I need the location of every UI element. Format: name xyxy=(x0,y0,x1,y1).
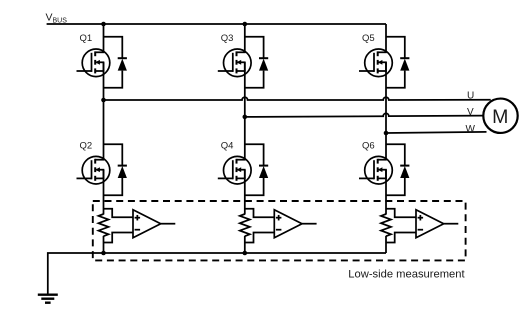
wire: phase U from leg1 to motor (hops over leg2 and leg3) xyxy=(104,97,491,100)
wire: leg2 drain Q3 xyxy=(244,24,246,52)
svg-text:V: V xyxy=(467,107,474,118)
op-amp U2 xyxy=(274,210,316,238)
svg-text:M: M xyxy=(492,106,508,128)
wire: R2 top tap to U2 + input xyxy=(245,209,274,218)
motor M xyxy=(483,99,517,133)
svg-text:W: W xyxy=(466,124,476,135)
svg-text:Q1: Q1 xyxy=(80,33,93,44)
junction: VBUS / leg2 xyxy=(243,22,248,27)
op-amp U1 xyxy=(133,210,175,238)
transistor Q3 xyxy=(218,49,251,77)
junction: bottom rail / R1 xyxy=(101,251,106,256)
svg-text:Low-side measurement: Low-side measurement xyxy=(348,269,465,281)
resistor R1 (shunt, leg1) xyxy=(99,214,109,236)
wire: leg1 Q2 source to shunt to bottom rail xyxy=(103,170,105,215)
wire: R1 bottom tap to U1 - input xyxy=(104,233,134,243)
wire: phase V from leg2 to motor (hops over leg3) xyxy=(245,113,483,117)
svg-text:Q6: Q6 xyxy=(362,141,375,152)
wire: leg3 Q6 source to shunt to bottom rail xyxy=(385,170,387,215)
svg-text:Q5: Q5 xyxy=(362,33,375,44)
diode D5 (body diode of Q5) xyxy=(386,37,409,88)
op-amp U3 xyxy=(416,210,458,238)
wire: R3 bottom tap to U3 - input xyxy=(386,233,416,243)
transistor Q1 xyxy=(77,49,110,77)
diode D1 (body diode of Q1) xyxy=(104,37,127,88)
diode D3 (body diode of Q3) xyxy=(245,37,268,88)
junction: node U on leg1 xyxy=(101,98,106,103)
transistor Q6 xyxy=(359,156,392,184)
svg-text:U: U xyxy=(467,91,474,102)
svg-text:VBUS: VBUS xyxy=(46,11,68,24)
diode D2 (body diode of Q2) xyxy=(104,144,127,195)
wire: leg2 Q3 source to Q4 drain (node V) xyxy=(244,62,246,159)
wire: R2 bottom tap to U2 - input xyxy=(245,233,274,243)
diode D6 (body diode of Q6) xyxy=(386,144,409,195)
junction: node W on leg3 xyxy=(384,131,389,136)
wire: leg2 Q4 source to shunt to bottom rail xyxy=(244,170,246,215)
resistor R3 (shunt, leg3) xyxy=(381,214,391,236)
svg-text:Q4: Q4 xyxy=(221,141,234,152)
wire: R1 top tap to U1 + input xyxy=(104,209,134,218)
wire: VBUS top rail xyxy=(47,23,386,25)
dashed box: low-side measurement xyxy=(93,201,466,260)
transistor Q5 xyxy=(359,49,392,77)
svg-text:Q3: Q3 xyxy=(221,33,234,44)
junction: VBUS / leg1 xyxy=(101,22,106,27)
wire: phase W from leg3 to motor xyxy=(386,132,487,133)
junction: node V on leg2 xyxy=(243,115,248,120)
diode D4 (body diode of Q4) xyxy=(245,144,268,195)
wire: R3 top tap to U3 + input xyxy=(386,209,416,218)
wire: bottom rail (shunt commons to ground) xyxy=(48,253,386,295)
transistor Q4 xyxy=(218,156,251,184)
resistor R2 (shunt, leg2) xyxy=(240,214,250,236)
wire: leg3 drain Q5 xyxy=(385,24,387,52)
wire: leg3 Q5 source to Q6 drain (node W) xyxy=(385,62,387,159)
svg-text:Q2: Q2 xyxy=(80,141,93,152)
wire: leg1 Q1 source to Q2 drain (node U) xyxy=(103,62,105,159)
ground xyxy=(38,295,58,303)
wire: leg1 drain Q1 xyxy=(103,24,105,52)
junction: bottom rail / R2 xyxy=(243,251,248,256)
transistor Q2 xyxy=(77,156,110,184)
